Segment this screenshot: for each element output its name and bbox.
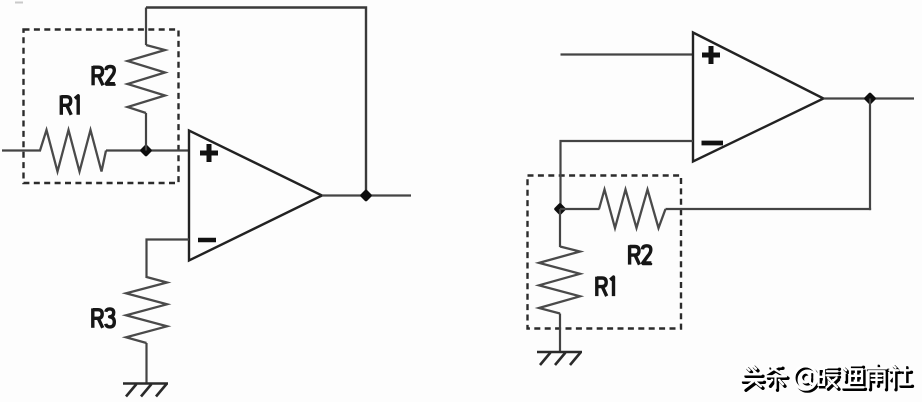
wire R3 to ground: [145, 343, 147, 384]
resistor R1 (left, horizontal): [40, 130, 106, 172]
wire plus input (right): [561, 53, 695, 55]
wire feedback top (left circuit): [146, 8, 366, 196]
node A (left input junction): [139, 144, 152, 157]
wire feedback vertical (right): [869, 99, 871, 211]
resistor R3 (left, vertical): [126, 277, 167, 343]
label R1 (right): [597, 277, 614, 296]
stray mark top-left: [15, 2, 23, 4]
wire R2 top lead: [145, 8, 147, 46]
label R2 (left): [93, 66, 115, 85]
node C (right output junction): [863, 92, 876, 105]
wire output (right): [824, 97, 915, 99]
wire node down to R1 (right): [559, 209, 561, 247]
resistor R1 (right, vertical): [539, 247, 580, 314]
wire R1 to ground (right): [559, 314, 561, 353]
ground (left): [123, 384, 168, 397]
node B (left output junction): [359, 189, 372, 202]
label R2 (right): [630, 245, 652, 264]
dashed box around R1 R2 (left): [24, 30, 179, 184]
wire node to R2 bottom: [145, 113, 147, 151]
node D (right feedback junction): [553, 202, 566, 215]
label R1 (left): [61, 95, 78, 114]
wire minus input to R3: [147, 240, 190, 279]
op-amp (right): [693, 33, 824, 162]
op-amp (left): [189, 131, 322, 261]
wire R1 to op-amp plus input: [106, 149, 190, 151]
wire minus input down to node (right): [561, 141, 694, 205]
label R3: [93, 308, 114, 327]
resistor R2 (left, vertical): [128, 45, 166, 113]
dashed box around R1 R2 (right): [528, 176, 682, 329]
wire output (left): [322, 194, 411, 196]
wire R2 to feedback vertical (right): [666, 208, 872, 210]
wire input left: [2, 149, 41, 151]
watermark text 头条@暖通南社: [742, 364, 913, 391]
ground (right): [537, 352, 582, 365]
wire node to R2 (right): [560, 208, 600, 210]
resistor R2 (right, horizontal): [599, 190, 666, 229]
